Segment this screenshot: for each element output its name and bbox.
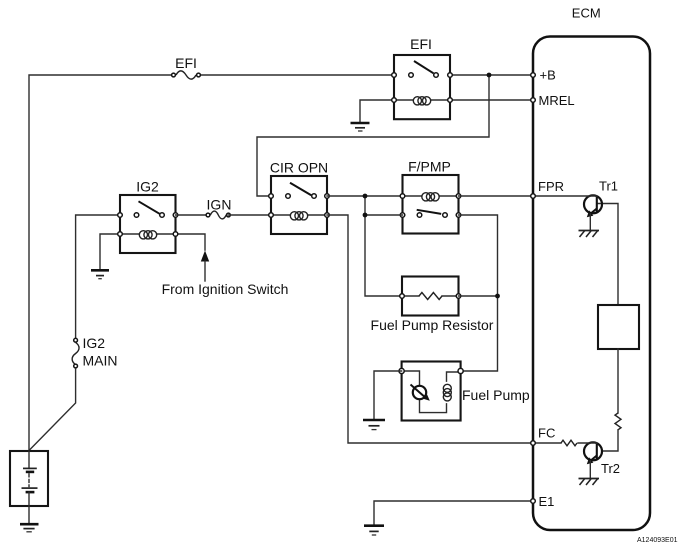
svg-text:IGN: IGN <box>207 197 232 213</box>
svg-text:F/PMP: F/PMP <box>408 159 451 175</box>
wire E1 terminal to ground <box>374 501 533 524</box>
resistor Tr2 base <box>561 440 577 446</box>
node junction FPR line <box>363 194 368 199</box>
wire battery positive up left side and along top to EFI fuse <box>29 75 174 451</box>
battery <box>10 451 48 523</box>
motor M with flow arrow <box>413 386 426 399</box>
svg-text:+B: +B <box>540 68 556 83</box>
transistor Tr1 <box>536 179 618 230</box>
resistor internal ECM (vertical) <box>615 413 621 430</box>
node junction F/PMP switch feed <box>363 213 368 218</box>
wire CIR OPN switch to F/PMP relay coil <box>327 195 403 197</box>
ECM <box>533 6 650 531</box>
terminal E1 <box>531 494 555 509</box>
arrow From Ignition Switch <box>162 251 289 298</box>
svg-text:IG2: IG2 <box>83 335 106 351</box>
svg-text:E1: E1 <box>539 494 555 509</box>
relay F/PMP <box>400 159 461 234</box>
resistor box Fuel Pump Resistor <box>371 277 494 334</box>
svg-text:Fuel Pump: Fuel Pump <box>462 387 530 403</box>
ground EFI relay coil <box>351 123 370 131</box>
terminal MREL <box>531 93 575 108</box>
wire driver box to internal resistor <box>617 349 619 413</box>
fuel pump <box>399 362 530 421</box>
fuse IG2 MAIN fusible link <box>72 335 117 369</box>
svg-text:CIR OPN: CIR OPN <box>270 160 328 176</box>
svg-text:Fuel Pump Resistor: Fuel Pump Resistor <box>371 317 494 333</box>
svg-text:Tr2: Tr2 <box>601 461 620 476</box>
svg-text:Tr1: Tr1 <box>599 179 618 194</box>
wire FC terminal to base resistor <box>536 442 561 444</box>
ground fuel pump <box>363 420 385 430</box>
wire internal resistor to Tr2 collector <box>602 430 618 451</box>
svg-text:EFI: EFI <box>175 55 197 71</box>
wire F/PMP switch output down to fuel pump <box>459 215 498 371</box>
relay EFI <box>392 36 453 119</box>
wire +B junction down and across to CIR OPN relay switch <box>257 75 489 196</box>
wire CIR OPN coil to FC terminal <box>327 215 533 443</box>
node junction resistor output <box>495 294 500 299</box>
wire EFI relay coil to ground <box>360 100 394 122</box>
svg-text:MREL: MREL <box>539 93 575 108</box>
terminal +B <box>531 68 556 83</box>
node junction on +B line <box>487 73 492 78</box>
terminal FPR <box>531 179 564 198</box>
ground Tr1 (hatched) <box>579 231 600 238</box>
pump coil <box>443 384 451 392</box>
ground Tr2 (hatched) <box>579 479 600 486</box>
wire resistor output to junction <box>459 295 498 297</box>
wire fuel pump to ground <box>374 371 402 418</box>
wire IGN fuse to CIR OPN relay coil <box>228 214 271 216</box>
svg-text:From Ignition Switch: From Ignition Switch <box>162 281 289 297</box>
wire parallel branch down to fuel pump resistor <box>365 196 402 296</box>
svg-text:MAIN: MAIN <box>83 353 118 369</box>
wire IG2 relay coil from ignition switch <box>176 234 206 250</box>
wire branch to F/PMP switch <box>365 214 403 216</box>
transistor Tr2 <box>578 442 620 477</box>
wire FPR: F/PMP coil to FPR terminal <box>459 195 534 197</box>
svg-text:EFI: EFI <box>410 36 432 52</box>
svg-text:FPR: FPR <box>538 179 564 194</box>
svg-text:A124093E01: A124093E01 <box>637 537 678 544</box>
wire Tr1 collector to driver box <box>597 204 618 306</box>
svg-text:IG2: IG2 <box>136 179 159 195</box>
wire IG2 relay coil to ground <box>100 234 120 269</box>
wire EFI fuse to EFI relay switch <box>199 74 395 76</box>
ground E1 <box>364 526 384 535</box>
terminal FC <box>531 426 556 446</box>
fuse EFI <box>172 55 201 79</box>
relay IG2 <box>118 179 178 254</box>
wire IG2 MAIN fusible link to battery <box>29 368 76 450</box>
wire IG2 relay switch to IG2 MAIN fusible link <box>76 215 120 338</box>
fuse IGN <box>206 197 231 219</box>
svg-text:FC: FC <box>538 426 555 441</box>
ground IG2 relay coil <box>91 270 109 278</box>
box driver circuit in ECM <box>598 305 639 349</box>
wire IG2 relay switch to IGN fuse <box>176 214 209 216</box>
relay CIR OPN <box>269 160 330 235</box>
wire EFI relay switch to +B terminal <box>450 74 533 76</box>
ground battery <box>20 524 39 532</box>
wire MREL: EFI relay coil to MREL terminal <box>450 99 533 101</box>
svg-text:ECM: ECM <box>572 6 601 21</box>
